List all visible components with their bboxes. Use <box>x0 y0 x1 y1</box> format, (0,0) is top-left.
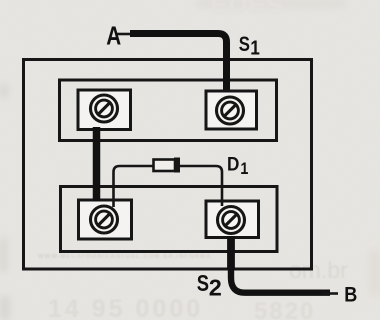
svg-text:2: 2 <box>209 275 222 301</box>
svg-text:1: 1 <box>241 160 249 178</box>
svg-text:D: D <box>227 152 239 174</box>
svg-text:14 95 0000: 14 95 0000 <box>48 295 203 320</box>
svg-text:S: S <box>197 271 209 296</box>
svg-text:EDES: EDES <box>210 0 284 20</box>
svg-text:B: B <box>344 283 357 307</box>
svg-text:S: S <box>239 33 250 56</box>
svg-text:5820: 5820 <box>254 298 315 320</box>
svg-text:1: 1 <box>250 36 259 59</box>
svg-text:A: A <box>106 22 121 51</box>
svg-text:WWW.MECATRONICAATUAL.COM.BR.IN: WWW.MECATRONICAATUAL.COM.BR.INFORMA <box>38 254 211 260</box>
